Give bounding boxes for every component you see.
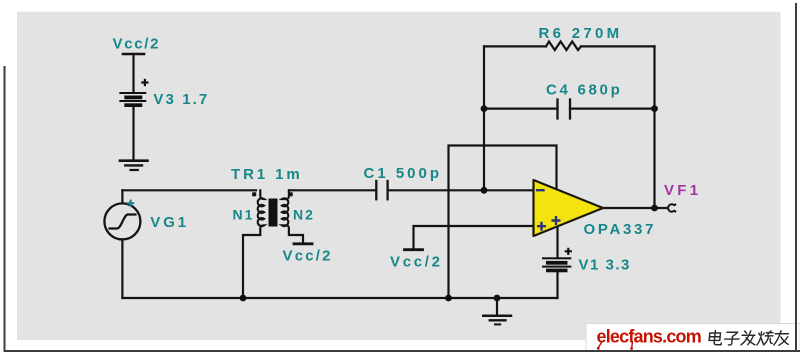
svg-text:N1: N1 bbox=[233, 206, 255, 222]
svg-text:C1 500p: C1 500p bbox=[364, 165, 443, 182]
svg-text:Vcc/2: Vcc/2 bbox=[283, 247, 333, 264]
svg-text:R6 270M: R6 270M bbox=[539, 25, 623, 42]
svg-text:C4 680p: C4 680p bbox=[546, 82, 622, 99]
svg-text:V1 3.3: V1 3.3 bbox=[579, 257, 631, 274]
svg-text:elecfans.com: elecfans.com bbox=[597, 327, 701, 347]
svg-text:TR1 1m: TR1 1m bbox=[231, 166, 303, 183]
svg-text:VG1: VG1 bbox=[150, 214, 189, 231]
svg-text:VF1: VF1 bbox=[664, 182, 701, 199]
svg-text:Vcc/2: Vcc/2 bbox=[113, 35, 161, 52]
svg-text:N2: N2 bbox=[293, 206, 315, 222]
svg-text:OPA337: OPA337 bbox=[584, 221, 657, 238]
svg-text:Vcc/2: Vcc/2 bbox=[390, 254, 443, 271]
svg-text:V3 1.7: V3 1.7 bbox=[153, 91, 209, 108]
